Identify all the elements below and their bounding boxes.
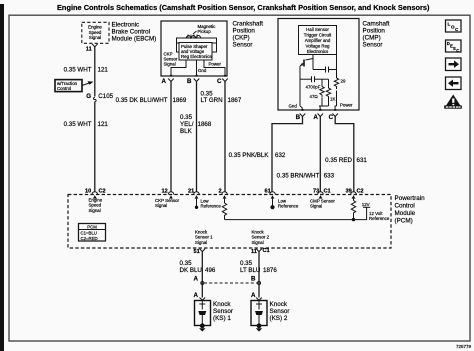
- svg-text:496: 496: [205, 267, 216, 274]
- PCM engine speed signal label: [89, 198, 103, 213]
- Gnd label CMP: [289, 104, 298, 109]
- svg-text:0.35 WHT: 0.35 WHT: [64, 121, 92, 128]
- svg-text:B: B: [251, 276, 256, 283]
- wire PCM 51 to KS1 (0.35 DK BLU 496): [201, 252, 203, 298]
- PCM dashed box: [68, 195, 391, 249]
- PCM low reference 1 + junction: [195, 199, 222, 210]
- KS1 sensor connector A: [194, 292, 206, 301]
- svg-text:(CMP): (CMP): [363, 35, 381, 42]
- svg-text:Signal: Signal: [164, 62, 176, 67]
- resistor 47ohm: [310, 79, 325, 99]
- svg-text:LT GRN: LT GRN: [201, 97, 223, 104]
- in-line connector dashed line: [204, 282, 257, 284]
- svg-text:Signal: Signal: [89, 35, 101, 40]
- wire PCM 11 to KS2 (0.35 LT BLU 1876): [258, 252, 260, 298]
- 12 Volt Reference label: [369, 211, 390, 221]
- label 0.35 LT GRN 1867: [201, 91, 242, 105]
- svg-text:Gnd: Gnd: [289, 104, 298, 109]
- Powertrain Control Module (PCM) label: [395, 195, 426, 225]
- svg-text:2: 2: [219, 189, 222, 195]
- svg-text:51: 51: [194, 249, 200, 255]
- svg-text:0.35 RED: 0.35 RED: [325, 157, 352, 164]
- label 0.35 YEL/BLK 1868: [180, 114, 212, 135]
- Knock Sensor (KS) 1 label: [213, 301, 233, 322]
- wire CKP C to PCM 2 (0.35 LT GRN 1867): [224, 82, 226, 193]
- svg-text:Signal: Signal: [310, 204, 322, 209]
- svg-text:A: A: [194, 276, 199, 283]
- connector mark at EBCM pin 11: [92, 44, 98, 47]
- svg-text:Trigger Circuit: Trigger Circuit: [304, 33, 332, 38]
- svg-text:Electronics: Electronics: [307, 49, 329, 54]
- svg-text:Electronic: Electronic: [112, 22, 140, 29]
- svg-text:C2=RED: C2=RED: [81, 236, 98, 241]
- wire CMP B to PCM 61 (0.35 PNK/BLK 632): [272, 117, 303, 193]
- svg-text:Reference: Reference: [278, 204, 299, 209]
- PCM pin 2: [219, 189, 222, 195]
- svg-text:C2: C2: [357, 189, 364, 195]
- PCM CKP sensor signal label: [155, 198, 180, 208]
- svg-text:C1=BLU: C1=BLU: [81, 231, 97, 236]
- PCM internal resistor (pin 2): [222, 199, 226, 220]
- PCM pin 73 C1: [313, 189, 331, 195]
- svg-text:121: 121: [98, 67, 109, 74]
- footer part number: [456, 344, 472, 349]
- label 0.35 WHT 121 (lower): [64, 121, 109, 128]
- svg-text:(KS) 1: (KS) 1: [213, 315, 231, 322]
- pass-through symbol pin 39: [351, 192, 357, 199]
- hall sensor electronics box: [299, 26, 337, 55]
- svg-text:C: C: [456, 48, 459, 53]
- wire CKP B to PCM 21 (0.35 YEL/BLK 1868): [196, 82, 198, 193]
- svg-text:1K: 1K: [330, 97, 335, 102]
- label 0.35 DK BLU 496: [180, 260, 216, 274]
- svg-text:B: B: [296, 114, 301, 121]
- svg-text:A: A: [162, 78, 167, 85]
- 12V supply symbol: [362, 202, 370, 208]
- svg-text:Sensor: Sensor: [213, 308, 233, 315]
- EBCM module dashed box: [82, 22, 109, 43]
- PCM knock sensor 2 signal label: [252, 230, 270, 245]
- CKP sensor signal label: [164, 52, 178, 67]
- PCM pin 61: [265, 189, 271, 195]
- svg-text:A: A: [251, 292, 256, 299]
- KS1 piezo element: [198, 301, 206, 326]
- PCM low reference 2 + junction: [270, 199, 298, 210]
- svg-text:0.35 DK BLU/WHT: 0.35 DK BLU/WHT: [116, 97, 168, 104]
- KS2 ground: [256, 323, 262, 331]
- svg-text:Position: Position: [233, 28, 256, 35]
- svg-text:Position: Position: [363, 28, 386, 35]
- svg-text:10: 10: [85, 189, 91, 195]
- KS2 in-line connector B: [251, 276, 261, 285]
- svg-text:DK BLU: DK BLU: [180, 267, 202, 274]
- svg-text:Crankshaft: Crankshaft: [233, 21, 264, 28]
- PCM connector id box: [79, 224, 106, 242]
- svg-text:Signal: Signal: [89, 208, 101, 213]
- svg-text:Power: Power: [209, 62, 222, 67]
- svg-text:A: A: [194, 292, 199, 299]
- svg-text:1869: 1869: [173, 97, 187, 104]
- svg-text:Knock: Knock: [270, 301, 288, 308]
- magnetic pickup label: [193, 24, 216, 34]
- svg-text:29: 29: [341, 79, 346, 84]
- svg-text:Hall Sensor: Hall Sensor: [306, 27, 329, 32]
- svg-text:631: 631: [357, 157, 368, 164]
- wire CMP A to PCM 73 (0.35 BRN/WHT 633): [319, 117, 321, 193]
- svg-text:Control: Control: [395, 203, 415, 210]
- PCM pin 51: [194, 249, 206, 255]
- svg-text:11: 11: [86, 47, 92, 53]
- toolbar icon LOC: [446, 20, 462, 32]
- resistor 1K: [326, 79, 335, 101]
- callout arrow to wire: [82, 81, 94, 85]
- svg-text:725779: 725779: [456, 344, 472, 349]
- Camshaft Position (CMP) Sensor label: [363, 21, 390, 49]
- pickup housing box: [177, 38, 217, 52]
- svg-text:Signal: Signal: [195, 240, 207, 245]
- KS2 piezo element: [255, 301, 263, 326]
- Power label CMP: [340, 102, 353, 107]
- svg-text:Sensor: Sensor: [270, 308, 290, 315]
- svg-text:Control: Control: [57, 86, 71, 91]
- svg-text:Signal: Signal: [252, 240, 264, 245]
- svg-text:0.35 PNK/BLK: 0.35 PNK/BLK: [229, 152, 270, 159]
- svg-text:B: B: [187, 78, 192, 85]
- 12V reference bus wire: [225, 208, 367, 222]
- svg-text:BLK: BLK: [180, 128, 193, 135]
- CMP sensor outer box: [278, 19, 359, 111]
- CKP pin C: [217, 75, 228, 85]
- svg-text:Pickup: Pickup: [198, 29, 212, 34]
- svg-text:1868: 1868: [198, 121, 212, 128]
- capacitor C-top: [313, 59, 337, 73]
- left window edge bar: [0, 4, 4, 351]
- svg-text:Sensor: Sensor: [233, 42, 253, 49]
- svg-text:0.35: 0.35: [180, 114, 193, 121]
- PCM pin 11 C1: [251, 248, 270, 255]
- pass-through symbol pin 61: [270, 192, 276, 199]
- svg-text:G: G: [86, 93, 91, 100]
- svg-text:12: 12: [162, 189, 168, 195]
- svg-text:Gnd: Gnd: [198, 68, 207, 73]
- KS1 in-line connector A: [194, 276, 204, 285]
- wire EBCM pin11 to PCM pin10 (0.35 WHT 121): [94, 47, 96, 97]
- KS1 ground: [199, 323, 205, 331]
- magnetic pickup coil symbol: [186, 35, 201, 39]
- svg-text:C1: C1: [324, 189, 331, 195]
- pass-through symbol pin 21: [194, 192, 200, 199]
- CMP bottom rails: [300, 91, 337, 111]
- label 0.35 BRN/WHT 633: [277, 172, 335, 179]
- svg-text:Amplifier and: Amplifier and: [305, 38, 331, 43]
- svg-text:Brake Control: Brake Control: [112, 29, 151, 36]
- svg-text:(PCM): (PCM): [395, 218, 413, 225]
- svg-text:1867: 1867: [228, 97, 242, 104]
- CKP pin B: [187, 75, 199, 85]
- svg-text:C2: C2: [99, 189, 106, 195]
- svg-text:C105: C105: [98, 93, 113, 100]
- svg-text:632: 632: [275, 152, 286, 159]
- svg-text:0.35 WHT: 0.35 WHT: [64, 67, 92, 74]
- svg-text:4700pF: 4700pF: [306, 85, 321, 90]
- Knock Sensor (KS) 2 label: [270, 301, 290, 322]
- svg-text:C1: C1: [263, 248, 270, 254]
- svg-text:(KS) 2: (KS) 2: [270, 315, 288, 322]
- svg-text:Reference: Reference: [201, 204, 222, 209]
- toolbar icon DESC: [446, 40, 462, 53]
- EBCM label: [112, 22, 157, 43]
- w/Traction Control callout box: [55, 80, 82, 92]
- pin 11: [86, 47, 92, 53]
- svg-text:Sensor: Sensor: [363, 42, 383, 49]
- PCM pin 39 C2: [346, 189, 364, 195]
- PCM 12V pull-up resistor: [351, 199, 355, 219]
- svg-text:Reference: Reference: [369, 216, 390, 221]
- in-line connector C105: [86, 93, 113, 101]
- CMP pin B: [296, 109, 306, 121]
- svg-text:Engine Controls Schematics (Ca: Engine Controls Schematics (Camshaft Pos…: [57, 3, 430, 12]
- pass-through symbol pin 10: [92, 192, 98, 199]
- svg-text:12V: 12V: [362, 202, 370, 207]
- PCM pin 10 C2: [85, 189, 106, 195]
- CKP sensor outer box: [161, 21, 227, 76]
- pulse shaper box: [179, 43, 213, 61]
- label 0.35 LT BLU 1876: [240, 260, 277, 274]
- Crankshaft Position (CKP) Sensor label: [233, 21, 264, 49]
- pass-through symbol pin 2: [222, 192, 228, 199]
- svg-text:0.35 BRN/WHT: 0.35 BRN/WHT: [277, 172, 320, 179]
- PCM knock sensor 1 signal label: [195, 230, 213, 245]
- svg-text:Power: Power: [340, 102, 353, 107]
- resistor 29: [334, 55, 346, 90]
- CKP internal wire to pin C (Power): [204, 60, 225, 76]
- svg-text:A: A: [313, 114, 318, 121]
- label 0.35 RED 631: [325, 157, 367, 164]
- label 0.35 DK BLU/WHT 1869: [116, 97, 187, 104]
- svg-text:121: 121: [98, 121, 109, 128]
- svg-text:C: C: [217, 78, 222, 85]
- CKP pin A: [162, 75, 174, 85]
- svg-text:47Ω: 47Ω: [310, 94, 319, 99]
- label 0.35 PNK/BLK 632: [229, 152, 286, 159]
- knock sensor KS2 box: [251, 301, 267, 326]
- CMP transistor Q: [300, 55, 313, 67]
- KS2 sensor connector A: [251, 292, 262, 301]
- toolbar icon prev arrow: [446, 77, 462, 90]
- svg-text:Voltage Reg: Voltage Reg: [306, 44, 330, 49]
- svg-text:1876: 1876: [263, 267, 277, 274]
- toolbar icon caution triangle: [444, 95, 462, 109]
- svg-text:PCM: PCM: [87, 224, 97, 229]
- knock sensor KS1 box: [195, 301, 211, 326]
- svg-text:Knock: Knock: [213, 301, 231, 308]
- svg-text:633: 633: [324, 172, 335, 179]
- svg-text:LT BLU: LT BLU: [240, 267, 260, 274]
- wire CKP A to PCM 12 (0.35 DK BLU/WHT 1869): [170, 82, 172, 193]
- pass-through symbol pin 73: [318, 192, 324, 199]
- svg-text:(CKP): (CKP): [233, 35, 250, 42]
- title: [57, 3, 430, 12]
- label 0.35 WHT 121 (upper): [64, 67, 109, 74]
- svg-text:Module: Module: [395, 210, 416, 217]
- CKP internal wire to pin B (Gnd): [197, 60, 207, 76]
- svg-text:Camshaft: Camshaft: [363, 21, 390, 28]
- svg-text:C: C: [329, 114, 334, 121]
- CKP internal wire to pin A: [171, 60, 186, 76]
- svg-text:11: 11: [251, 249, 257, 255]
- pass-through symbol pin 12: [168, 192, 174, 199]
- CMP left rail (pin B Gnd): [299, 66, 301, 106]
- toolbar icon next arrow: [446, 58, 462, 71]
- svg-text:Reg Electronics: Reg Electronics: [181, 54, 213, 59]
- svg-text:YEL/: YEL/: [180, 121, 194, 128]
- svg-text:Powertrain: Powertrain: [395, 195, 426, 202]
- CMP pin A: [313, 109, 323, 121]
- svg-text:Signal: Signal: [155, 203, 167, 208]
- PCM CMP sensor signal label: [310, 199, 335, 209]
- CMP pin C: [329, 109, 338, 121]
- PCM pin 21: [188, 189, 194, 195]
- wire C105 to PCM pin 10 (0.35 WHT 121): [94, 102, 96, 192]
- wire CMP C to PCM 39 (0.35 RED 631): [335, 117, 354, 193]
- svg-text:Module (EBCM): Module (EBCM): [112, 36, 157, 43]
- capacitor 4700pF: [300, 76, 329, 89]
- PCM pin 12: [162, 189, 168, 195]
